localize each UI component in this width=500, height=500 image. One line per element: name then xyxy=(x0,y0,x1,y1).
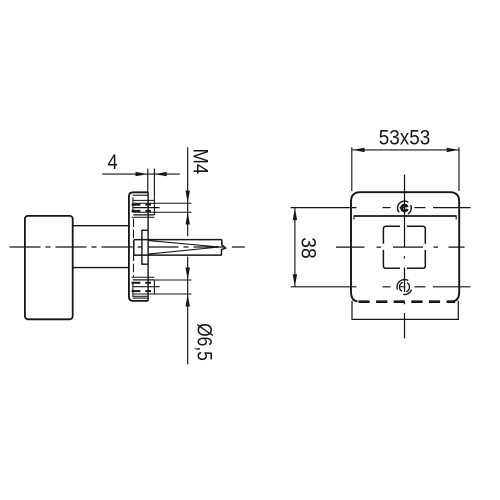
lower extension xyxy=(352,301,458,320)
handle grip knob xyxy=(25,216,73,319)
top screw xyxy=(132,196,192,217)
flange inner rim bottom xyxy=(133,297,149,299)
top screw slot notch xyxy=(405,206,410,210)
bottom screw xyxy=(132,277,192,296)
dimension 53x53 xyxy=(352,147,459,191)
dimension 4 xyxy=(102,169,180,197)
flange inner left edge top screw zone xyxy=(132,197,134,212)
bottom dashed edge xyxy=(359,300,456,303)
hole centerlines top xyxy=(291,207,471,209)
spindle wedge xyxy=(148,241,219,255)
spindle shaft xyxy=(134,240,226,256)
hole centerlines bottom xyxy=(291,286,471,288)
bottom screw hole outer arc xyxy=(397,279,408,289)
bottom screw hole inner arc right xyxy=(406,283,409,292)
svg-text:53x53: 53x53 xyxy=(379,127,431,150)
hub xyxy=(142,230,148,264)
centerline left view xyxy=(10,246,227,248)
plate inner face line xyxy=(354,215,456,217)
centerline end dash xyxy=(232,246,245,248)
flange outline xyxy=(129,192,148,301)
bottom screw hole inner arc left xyxy=(399,282,402,291)
M4 arrows xyxy=(186,191,190,225)
top screw hole thread arc xyxy=(398,201,409,212)
bottom screw hole outer arc 2 xyxy=(403,290,411,295)
svg-text:M4: M4 xyxy=(188,149,212,175)
svg-text:Ø6,5: Ø6,5 xyxy=(192,323,216,361)
svg-text:4: 4 xyxy=(108,151,118,175)
square hole xyxy=(383,226,425,268)
dimension M4 / Ø6,5 vertical line xyxy=(187,147,189,364)
svg-text:38: 38 xyxy=(296,237,320,259)
neck cylinder xyxy=(73,225,130,227)
hidden hole dashed line xyxy=(133,219,135,277)
top screw hole thread arc 2 xyxy=(408,205,411,214)
top screw head ring xyxy=(402,205,408,211)
vertical centerline xyxy=(404,175,406,339)
flange inner rim top xyxy=(133,194,149,196)
dimension 38 xyxy=(294,208,296,287)
Ø6,5 arrows xyxy=(186,268,190,307)
horizontal centerline xyxy=(336,246,465,248)
flange right face edge xyxy=(147,192,149,301)
plate outline xyxy=(351,192,459,301)
top hole center dash xyxy=(400,207,406,209)
spindle wedge tip xyxy=(217,246,221,248)
flange inner left edge bottom screw zone xyxy=(132,282,134,297)
bottom hole center dash xyxy=(400,286,406,288)
